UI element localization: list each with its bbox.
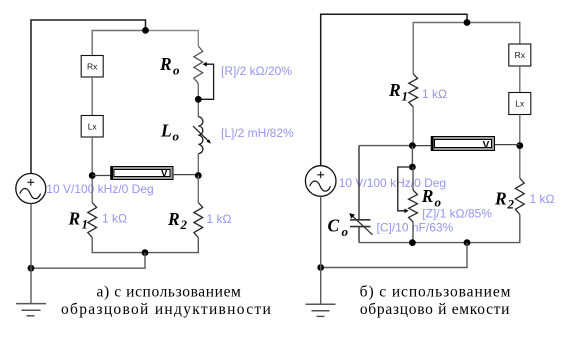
svg-text:образцовой индуктивности: образцовой индуктивности <box>61 301 272 318</box>
junction node C dot (voltmeter right) <box>195 172 202 179</box>
wire: node A to Ro branch top <box>146 31 199 47</box>
junction dot (Ro bottom, left) <box>195 96 202 103</box>
svg-text:[C]/10 nF/63%: [C]/10 nF/63% <box>377 221 454 235</box>
wire: Co bottom to bottom bus (right) <box>358 227 360 243</box>
value label 10 V/100 kHz/0 Deg (right source) <box>339 176 446 190</box>
svg-text:R: R <box>421 186 434 206</box>
svg-text:[L]/2 mH/82%: [L]/2 mH/82% <box>221 126 294 140</box>
svg-text:[Z]/1 kΩ/85%: [Z]/1 kΩ/85% <box>422 207 492 221</box>
label Ro (left) <box>159 54 180 77</box>
inductor Lx (box, right) <box>509 93 531 115</box>
label R2 (left) <box>167 209 188 232</box>
variable inductor Lo (left, coil) <box>198 117 203 154</box>
svg-text:Lx: Lx <box>515 99 525 109</box>
svg-text:[R]/2 kΩ/20%: [R]/2 kΩ/20% <box>221 64 292 78</box>
wire: Ro bottom to node (dot) <box>197 84 199 117</box>
wire: source bottom through node E to ground (left) <box>30 203 32 303</box>
wire: Lo bottom to node C <box>197 154 199 176</box>
svg-text:L: L <box>160 120 172 140</box>
ac source V2 (right) <box>305 166 336 197</box>
variable capacitor Co (plates) <box>350 220 371 227</box>
wire: node K to voltmeter (right) <box>412 145 431 147</box>
svg-text:Rx: Rx <box>87 62 98 72</box>
svg-text:1 kΩ: 1 kΩ <box>422 87 447 101</box>
svg-text:V: V <box>483 140 490 151</box>
wire: node K to node L <box>411 146 413 167</box>
wiper arrow of Lo (left) <box>193 126 211 144</box>
svg-text:1 kΩ: 1 kΩ <box>102 212 127 226</box>
value label [L]/2 mH/82% <box>221 126 294 140</box>
value label 1 kOhm (left R2) <box>207 212 232 226</box>
wire: Lx to node B and down to R1 <box>91 137 93 203</box>
junction node F dot <box>464 19 471 26</box>
ground (right) <box>306 304 336 316</box>
variable resistor Ro (right, zigzag) <box>409 190 418 222</box>
value label 1 kOhm (left R1) <box>102 212 127 226</box>
svg-text:C: C <box>328 216 340 236</box>
label Lo (left) <box>160 120 180 143</box>
svg-text:10 V/100 kHz/0 Deg: 10 V/100 kHz/0 Deg <box>46 182 153 196</box>
wire: right outer loop top (source top to node F) <box>321 14 467 166</box>
wire: Lx down through node G to R2 (right) <box>519 115 521 179</box>
junction node I dot <box>464 239 471 246</box>
wiper arrow and bracket of Ro (right) <box>398 167 413 213</box>
svg-text:б) с использованием: б) с использованием <box>360 284 512 301</box>
svg-text:образцово й емкости: образцово й емкости <box>360 301 510 318</box>
value label 1 kOhm (right R2) <box>530 192 555 206</box>
value label 10 V/100 kHz/0 Deg (left source) <box>46 182 153 196</box>
junction node K dot <box>409 142 416 149</box>
wire: source bottom through node J to ground (right) <box>320 196 322 304</box>
caption obraztsovoy emkosti <box>360 301 510 318</box>
caption a) s ispolzovaniem <box>97 284 242 301</box>
value label [C]/10 nF/63% <box>377 221 454 235</box>
wire: Rx to Lx (right) <box>519 66 521 93</box>
svg-text:R: R <box>159 54 172 74</box>
svg-text:2: 2 <box>507 197 515 212</box>
label R1 (right) <box>388 80 408 103</box>
label R1 (left) <box>68 208 89 231</box>
resistor R1 (right, zigzag) <box>409 74 418 107</box>
svg-text:1: 1 <box>402 88 409 103</box>
wire: node F to Rx branch (right) <box>467 23 520 45</box>
wire: node I down to ground bus (right) <box>321 243 467 268</box>
svg-text:R: R <box>68 208 81 228</box>
svg-text:o: o <box>435 194 442 209</box>
svg-text:Lx: Lx <box>88 122 98 132</box>
svg-text:1 kΩ: 1 kΩ <box>530 192 555 206</box>
wire: voltmeter to node C <box>173 174 198 176</box>
wire: Co branch horizontal (right) <box>359 145 412 147</box>
junction node A dot <box>142 27 149 34</box>
caption b) s ispolzovaniem <box>360 284 512 301</box>
voltmeter V (right) <box>431 137 495 151</box>
wire: R2 bottom to node D <box>145 238 198 253</box>
svg-text:V: V <box>161 169 168 180</box>
junction node H dot <box>409 239 416 246</box>
wiper arrow and bracket of Ro (left) <box>198 62 213 99</box>
ac source V1 (left) <box>16 174 46 204</box>
wire: node B to voltmeter <box>92 175 111 177</box>
junction node B dot (voltmeter left) <box>89 172 96 179</box>
svg-text:R: R <box>388 80 401 100</box>
wire: Co branch vertical upper (right) <box>358 146 360 220</box>
wire: left outer loop top (source top to node A) <box>31 20 146 174</box>
voltmeter V (left) <box>110 167 173 180</box>
svg-text:Rx: Rx <box>515 50 526 60</box>
junction node L dot <box>409 164 416 171</box>
junction node D dot <box>142 249 149 256</box>
label Ro (right) <box>421 186 442 209</box>
resistor R1 (left, zigzag) <box>88 203 97 238</box>
arrow of variable capacitor Co <box>349 213 372 235</box>
junction node G dot <box>516 142 523 149</box>
caption obraztsovoy induktivnosti <box>61 301 272 318</box>
wire: node A to Rx branch top <box>92 31 145 56</box>
svg-text:R: R <box>167 209 180 229</box>
value label [Z]/1 kOhm/85% <box>422 207 492 221</box>
wire: node D to node E <box>31 253 145 269</box>
svg-text:o: o <box>173 63 180 78</box>
wire: node L down to Ro (right) <box>412 167 414 190</box>
svg-text:а) с использованием: а) с использованием <box>97 284 242 301</box>
resistor Rx (box, right) <box>509 44 531 66</box>
wire: R2 bottom to bottom bus (right) <box>359 215 520 243</box>
junction node J dot <box>317 264 324 271</box>
svg-text:1 kΩ: 1 kΩ <box>207 212 232 226</box>
svg-text:R: R <box>494 188 507 208</box>
label R2 (right) <box>494 188 515 211</box>
wire: R1 bottom to node D <box>92 238 145 253</box>
variable resistor Ro (left, zigzag) <box>194 46 203 84</box>
svg-text:1: 1 <box>82 217 89 232</box>
label Co (right) <box>328 216 349 240</box>
ground (left) <box>16 304 46 316</box>
resistor R2 (right, zigzag) <box>515 178 524 215</box>
svg-text:o: o <box>342 224 349 239</box>
value label 1 kOhm (right R1) <box>422 87 447 101</box>
inductor Lx (box, left) <box>81 116 103 138</box>
svg-text:o: o <box>173 129 180 144</box>
junction node E dot <box>28 265 35 272</box>
resistor R2 (left, zigzag) <box>194 203 203 238</box>
wire: R1 bottom to node K (right) <box>412 107 414 146</box>
resistor Rx (box, left) <box>81 56 103 78</box>
svg-text:2: 2 <box>180 217 188 232</box>
wire: voltmeter to node G (right) <box>495 144 520 146</box>
wire: Ro bottom to node H (right) <box>412 222 414 243</box>
wire: node F to R1 branch (right) <box>413 23 467 74</box>
wire: Rx to Lx <box>91 77 93 116</box>
wire: node C down to R2 <box>197 176 199 203</box>
value label [R]/2 kOhm/20% <box>221 64 292 78</box>
